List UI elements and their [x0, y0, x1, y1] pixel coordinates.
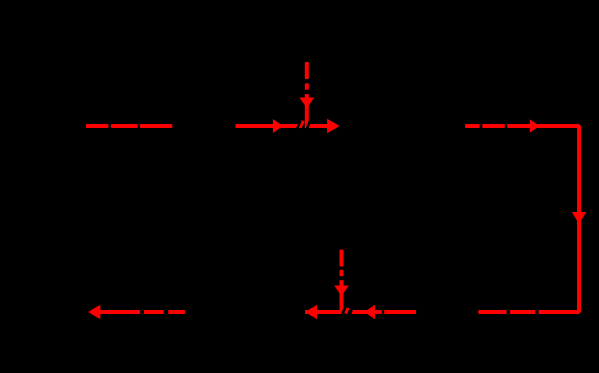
wire: bottom-left solid segment [100, 310, 140, 314]
wire: bottom-left dashed segment (2 dashes) [144, 310, 185, 314]
arrowhead: top-right flow arrow (points right) [530, 119, 540, 132]
arrowhead: top-left flow arrow (points right) [273, 119, 283, 133]
break cut 1 (bottom junction, background) [342, 306, 346, 316]
break cut 2 (top junction, background) [306, 121, 310, 131]
wire: top solid segment into junction [236, 124, 302, 128]
break cut 1 (top junction, background) [297, 121, 301, 131]
wire: top-right dashed+solid segment [465, 124, 505, 128]
wire: top-left dashed segment (3 dashes) [86, 124, 172, 128]
arrowhead: big arrow right of junction (points right) [327, 119, 340, 134]
arrowhead: right vertical flow arrow (points down) [572, 212, 586, 224]
wire: short segment right of top junction [309, 124, 328, 128]
wire: vertical dashed arrow from top into node [305, 62, 309, 128]
wire: bottom segment from big left arrow to junction [305, 310, 341, 314]
break cut 2 (bottom junction, background) [349, 306, 353, 316]
wire: vertical dashed arrow down to bottom line [340, 250, 344, 315]
break slash chunk (top junction) [300, 121, 303, 128]
arrowhead: top vertical arrow (points down) [299, 98, 314, 109]
wire: bottom-middle dash after medium arrow [384, 310, 416, 314]
break slash chunk (bottom junction) [345, 308, 348, 314]
wire: top-right solid run, right vertical and bottom-right run (bevel corners) [507, 126, 579, 312]
wire: bottom-middle solid behind medium arrow [352, 310, 382, 314]
wire: bottom-right dashed segment [478, 310, 535, 314]
arrowhead: bottom vertical arrow (points down) [334, 286, 349, 297]
arrowhead: bottom-middle flow arrow (points left) [364, 305, 375, 319]
arrowhead: bottom-left exit arrow (points left) [88, 305, 100, 319]
arrowhead: bottom big flow arrow (points left) [305, 305, 317, 319]
